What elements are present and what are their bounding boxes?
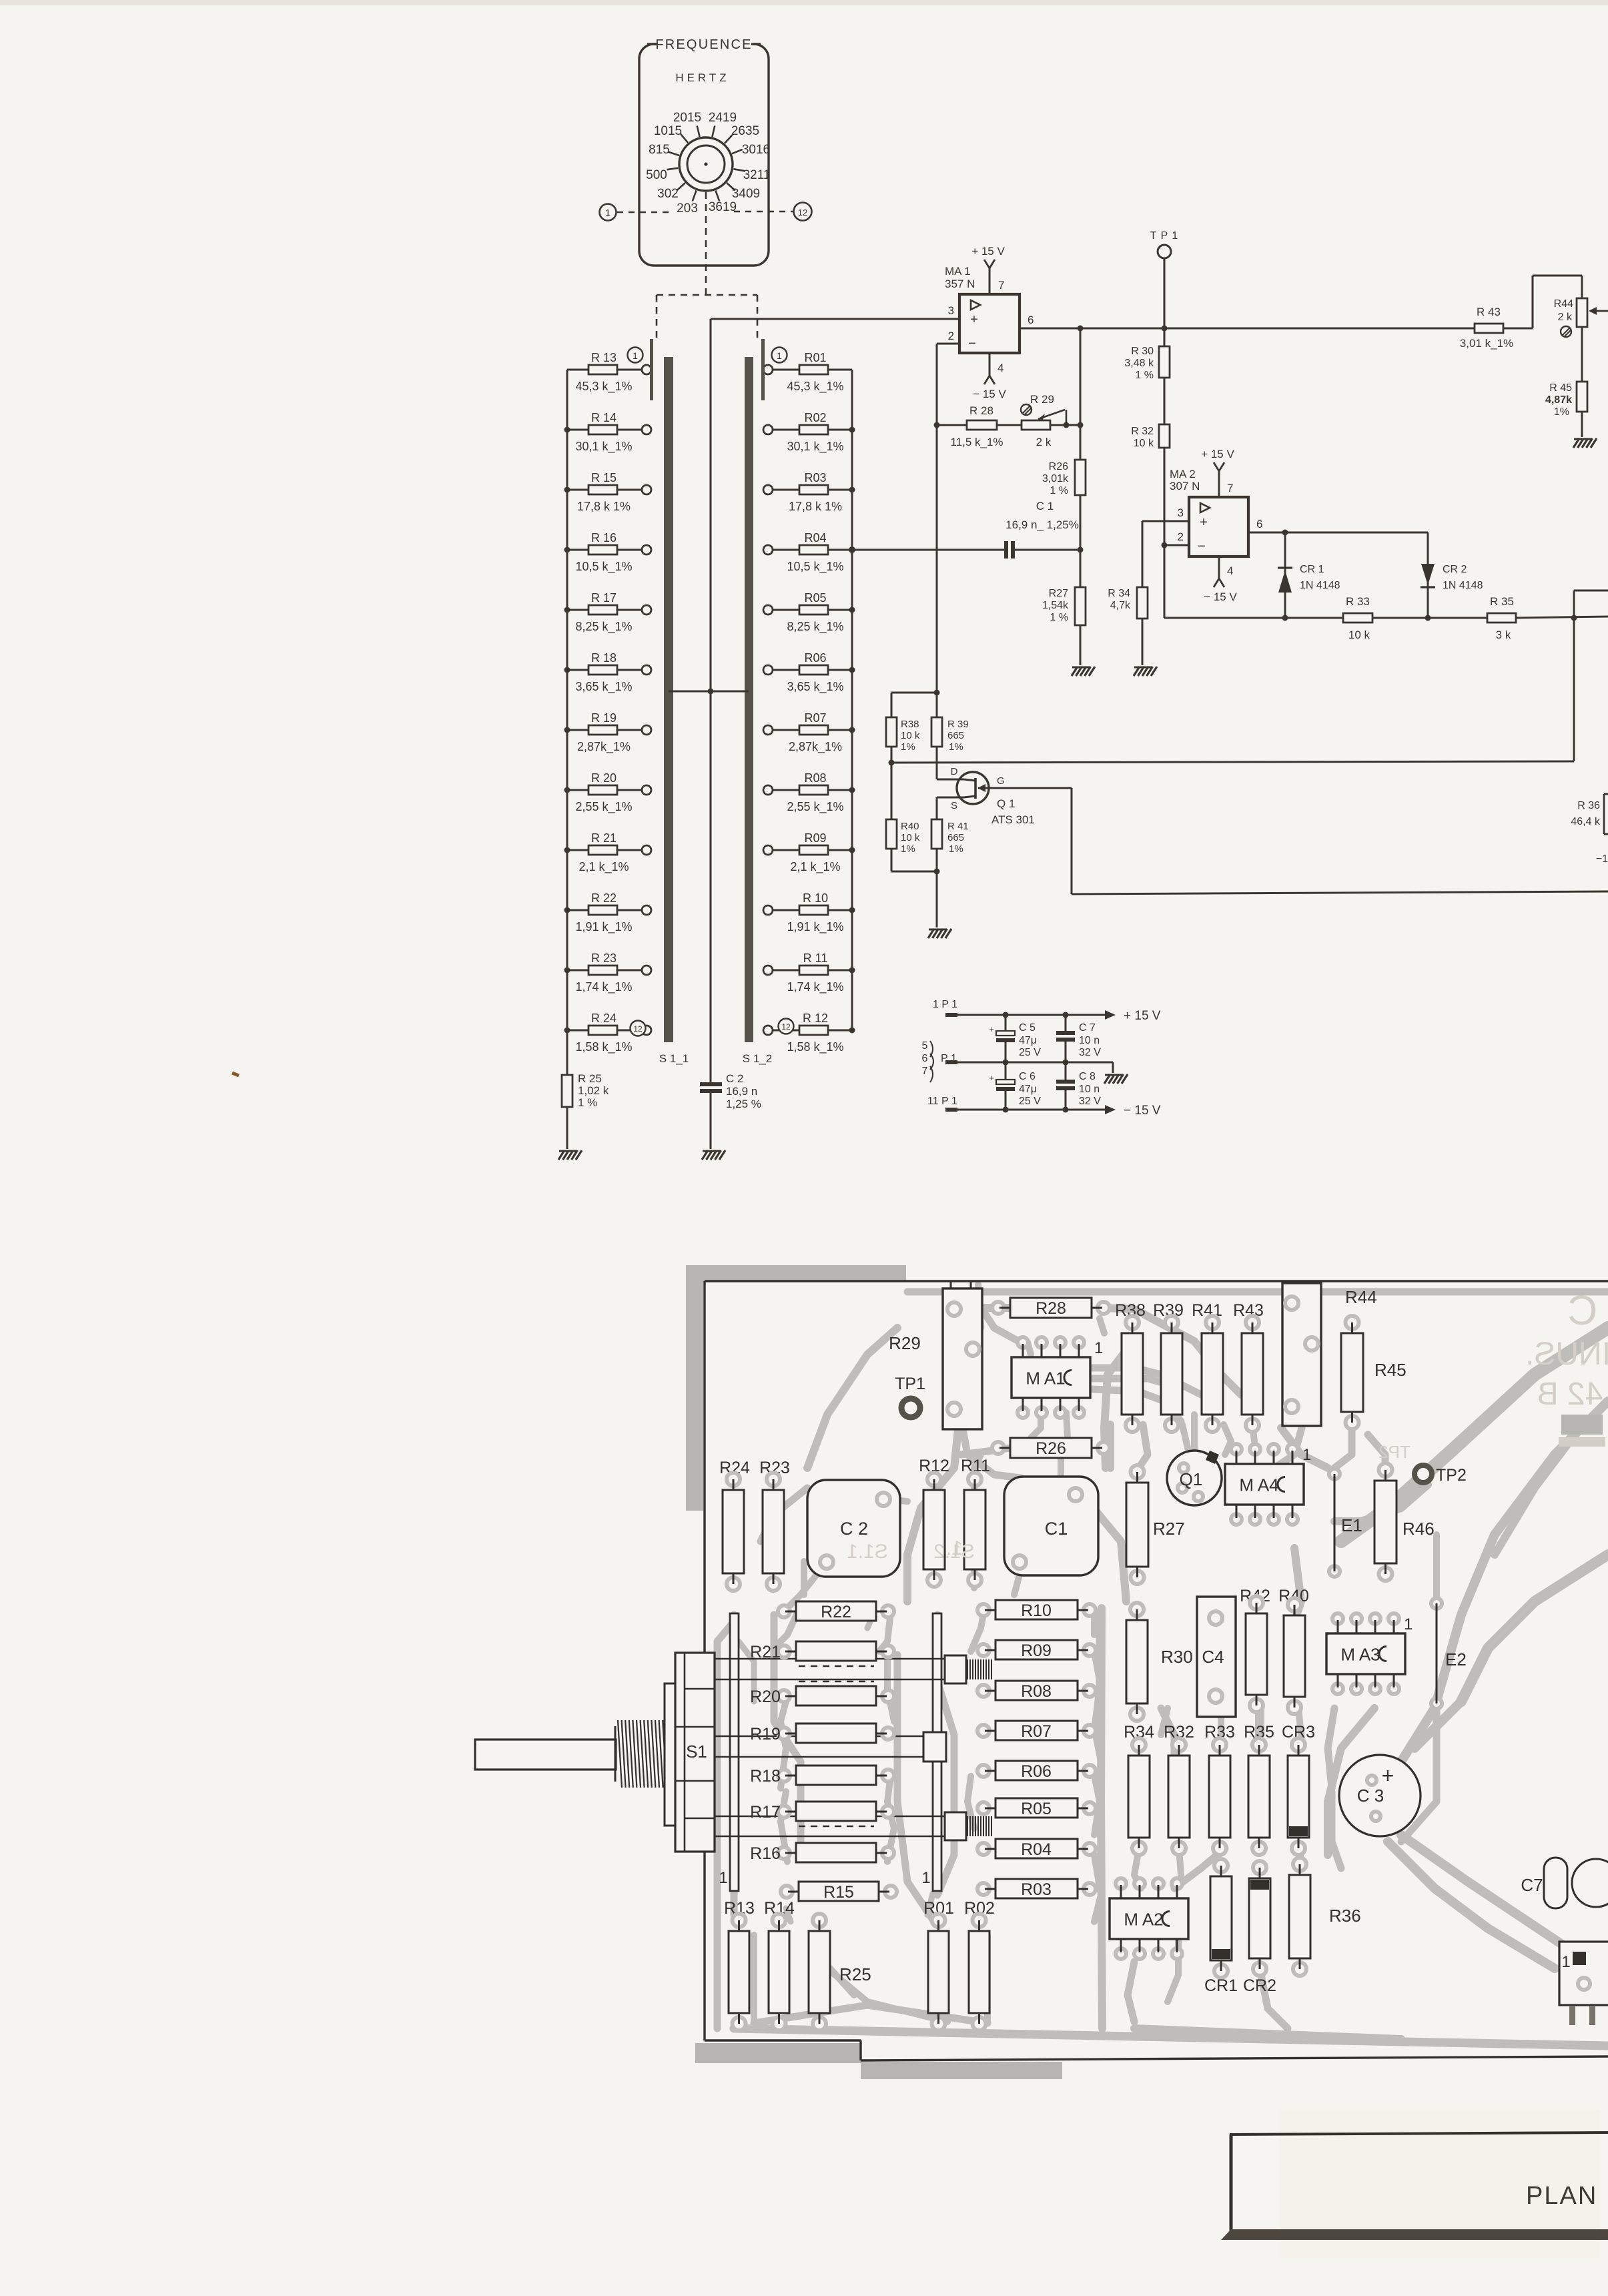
svg-text:R26: R26 [1049,461,1068,472]
dial tick 3409 [727,183,760,201]
pcb resistor R06 [977,1761,1096,1781]
svg-text:C 2: C 2 [726,1072,743,1085]
pcb switch rod B [715,1732,946,1762]
pcb trimmer R44 [1282,1281,1377,1426]
pcb labels R24 R23 [719,1459,790,1477]
svg-text:C 1: C 1 [1036,500,1054,512]
resistor R22 [564,891,652,934]
svg-text:10,5 k_1%: 10,5 k_1% [575,560,632,574]
capacitor C6 47u [989,1062,1041,1110]
pcb resistor R14 [769,1914,789,2030]
svg-text:2635: 2635 [731,124,759,138]
svg-text:S 1_2: S 1_2 [743,1052,772,1065]
MA1 pin 2 wire [937,330,959,693]
svg-text:10 n: 10 n [1079,1035,1100,1046]
svg-text:1: 1 [605,208,611,219]
svg-text:R 22: R 22 [591,891,617,905]
pcb resistor R30 [1126,1603,1193,1721]
pcb switch S1 plate [665,1683,675,1826]
svg-text:3,01 k_1%: 3,01 k_1% [1460,337,1513,350]
label HERTZ [675,71,729,84]
trimmer R29 [1021,393,1084,448]
pcb resistor R15 [781,1882,897,1902]
op-amp MA2 307N [1170,468,1248,556]
connector pins 5 6 7 P1 [922,1040,957,1082]
pcb switch S1 thread [615,1720,667,1788]
wire -15V rail [957,1104,1161,1118]
resistor R10 [763,891,855,934]
svg-text:R09: R09 [804,831,826,845]
pcb resistor R33 [1209,1738,1230,1855]
svg-text:32 V: 32 V [1079,1096,1101,1107]
svg-text:10 k: 10 k [901,832,920,843]
wire source node [891,869,940,928]
svg-text:R 24: R 24 [591,1012,617,1025]
pcb capacitor C1 [1004,1477,1098,1575]
svg-text:R 23: R 23 [591,951,617,965]
pcb resistor R16 [750,1843,894,1863]
svg-text:1,02 k: 1,02 k [578,1084,609,1097]
svg-text:G: G [997,775,1005,787]
svg-text:R 28: R 28 [969,404,993,417]
resistor R20 [564,771,652,814]
svg-text:302: 302 [657,187,679,201]
svg-text:1: 1 [1302,1446,1311,1464]
resistor R45 [1545,327,1587,437]
wire MA2 output to CR2 [1285,532,1428,534]
svg-text:R04: R04 [1021,1840,1052,1859]
transistor Q1 ATS301 [937,766,1035,826]
svg-text:R 39: R 39 [947,719,969,730]
MA2 pin 4 -15V [1204,556,1237,603]
node 1 marker left bank [628,348,643,363]
svg-text:2,87k_1%: 2,87k_1% [789,740,842,754]
svg-text:R 18: R 18 [591,651,617,665]
svg-text:2: 2 [948,330,954,342]
svg-text:3016: 3016 [742,143,770,157]
svg-text:30,1 k_1%: 30,1 k_1% [787,440,843,454]
pcb test point TP1 [895,1375,925,1417]
svg-text:17,8 k 1%: 17,8 k 1% [789,500,842,513]
dashed shaft line from dial [657,192,757,338]
svg-text:3: 3 [1178,506,1184,519]
svg-text:MA 2: MA 2 [1170,468,1196,480]
MA2 pin 2 wire [1162,530,1190,618]
title block PLAN [1221,2110,1608,2258]
svg-text:4,7k: 4,7k [1110,600,1131,611]
svg-text:MA 1: MA 1 [945,265,971,278]
pcb capacitor C7 [1521,1858,1608,1908]
svg-text:46,4 k: 46,4 k [1571,816,1601,827]
resistor R06 [763,651,855,694]
pcb trimmer R29 [889,1281,982,1429]
pcb resistor R13 [729,1914,749,2030]
pcb IC MA4 [1225,1444,1311,1525]
MA2 pin 7 +15V [1201,448,1234,497]
svg-text:2419: 2419 [709,111,737,125]
svg-text:307 N: 307 N [1170,480,1200,492]
svg-text:C 7: C 7 [1079,1022,1096,1034]
svg-text:R 20: R 20 [591,771,617,785]
svg-text:C 6: C 6 [1019,1071,1036,1082]
pcb labels R42 R40 [1240,1587,1309,1605]
MA1 pin 6 output wire [1020,314,1475,332]
svg-text:1,74 k_1%: 1,74 k_1% [575,980,632,994]
ground C2 [702,1150,725,1160]
capacitor C2 [700,691,761,1149]
svg-text:1%: 1% [949,741,963,753]
svg-text:R 14: R 14 [591,411,617,424]
pcb labels R38 R39 R41 R43 [1115,1301,1264,1320]
svg-text:R 32: R 32 [1131,426,1154,437]
pcb resistor R34 [1128,1738,1150,1855]
svg-text:PLAN: PLAN [1526,2182,1597,2210]
svg-text:R28: R28 [1036,1299,1066,1318]
svg-text:45,3 k_1%: 45,3 k_1% [575,380,632,394]
svg-text:47μ: 47μ [1019,1084,1037,1095]
svg-text:R20: R20 [750,1687,781,1706]
svg-text:6: 6 [1256,518,1262,530]
ground R45 [1573,438,1597,448]
svg-text:1%: 1% [901,741,915,753]
svg-text:1: 1 [1561,1953,1570,1971]
pcb resistor R01 [928,1914,949,2030]
svg-text:TP1: TP1 [895,1375,925,1393]
switch wafer S1.2 [743,339,772,1065]
pcb labels R34 R32 R33 R35 CR3 [1124,1723,1315,1742]
svg-text:3211: 3211 [743,168,771,182]
resistor R30 [1124,328,1170,381]
pcb resistor R28 [992,1298,1110,1318]
pcb resistor R35 [1248,1738,1270,1855]
capacitor C8 10n [1056,1062,1101,1110]
pcb labels R12 R11 [919,1457,990,1475]
dial tick 203 [677,191,698,216]
wire 0V rail [957,1060,1113,1074]
resistor R24 [564,1012,652,1054]
pcb switch S1 shaft [475,1740,616,1770]
svg-text:4: 4 [997,362,1003,374]
svg-text:45,3 k_1%: 45,3 k_1% [787,380,843,394]
pcb resistor R11 [964,1473,985,1587]
connector pin 1P1 [933,999,957,1017]
svg-text:3 k: 3 k [1496,629,1511,641]
svg-text:S 1_1: S 1_1 [659,1052,689,1065]
svg-text:−: − [1198,539,1206,554]
MA2 pin 6 wire [1248,518,1288,536]
pcb resistor R25 [809,1914,871,2030]
pcb resistor R26 [992,1438,1110,1458]
wire +15V rail [957,1009,1161,1023]
ground PSU [1104,1074,1128,1084]
op-amp MA1 357N [945,265,1020,353]
svg-text:R19: R19 [750,1725,781,1744]
svg-text:25 V: 25 V [1019,1047,1041,1058]
svg-text:R06: R06 [1021,1762,1052,1781]
svg-text:R21: R21 [750,1643,781,1661]
svg-text:C4: C4 [1202,1647,1224,1667]
MA2 pin 3 wire [1142,506,1189,521]
svg-text:− 15 V: − 15 V [1204,591,1237,603]
pcb diode CR1 [1210,1859,1232,1978]
svg-text:1 %: 1 % [1050,612,1068,623]
svg-text:R44: R44 [1554,298,1573,310]
resistor R28 [934,404,1022,448]
pcb IC MA3 [1326,1613,1413,1694]
wire feedback riser [1571,591,1608,761]
svg-text:R40: R40 [901,821,919,832]
svg-text:R30: R30 [1161,1647,1193,1667]
svg-text:R26: R26 [1036,1439,1066,1458]
svg-text:10,5 k_1%: 10,5 k_1% [787,560,843,574]
pcb resistor R21 [750,1641,894,1661]
pcb copper traces [717,1284,1608,2046]
svg-text:C 5: C 5 [1019,1022,1036,1034]
svg-text:+: + [1200,515,1208,530]
resistor R35 [1487,595,1608,641]
svg-text:11 P 1: 11 P 1 [927,1096,957,1107]
svg-text:R08: R08 [804,771,826,785]
svg-text:R05: R05 [804,591,826,605]
svg-text:C: C [1568,1288,1598,1334]
wire inverting node [891,690,940,696]
pcb resistor R05 [977,1798,1096,1818]
pcb resistor R32 [1168,1738,1190,1855]
pcb resistor R36 [1289,1858,1361,1976]
svg-text:− 15 V: − 15 V [973,388,1006,400]
svg-text:1,58 k_1%: 1,58 k_1% [575,1040,632,1054]
svg-text:R05: R05 [1021,1800,1052,1818]
resistor R01 [763,351,852,394]
svg-text:D: D [951,766,958,777]
svg-text:32 V: 32 V [1079,1047,1101,1058]
resistor R38 [886,693,920,763]
svg-text:R 21: R 21 [591,831,617,845]
svg-text:1,91 k_1%: 1,91 k_1% [787,920,843,934]
svg-text:R07: R07 [1021,1722,1052,1741]
pcb resistor R09 [977,1640,1096,1660]
svg-text:665: 665 [947,832,964,843]
svg-text:C7: C7 [1521,1875,1543,1895]
svg-text:1 %: 1 % [578,1096,597,1109]
node 12 marker left bank [631,1021,646,1036]
svg-text:Q 1: Q 1 [997,797,1015,810]
node 1 marker right bank [772,348,787,363]
switch wafer S1.1 [650,339,689,1065]
svg-text:2,55 k_1%: 2,55 k_1% [787,800,843,814]
resistor R11 [763,951,855,994]
pcb labels CR1 CR2 [1204,1976,1276,1995]
switch front-panel box FREQUENCE [639,36,769,266]
resistor R21 [564,831,652,874]
resistor R13 [567,351,651,394]
svg-text:CR 1: CR 1 [1300,564,1324,575]
svg-text:R09: R09 [1021,1641,1052,1660]
svg-text:2,87k_1%: 2,87k_1% [577,740,631,754]
diode CR2 1N4148 [1421,532,1483,618]
pcb switch rod A [715,1655,991,1683]
svg-text:12: 12 [633,1024,643,1034]
svg-text:500: 500 [646,168,667,182]
svg-text:R 13: R 13 [591,351,617,364]
svg-text:C 8: C 8 [1079,1071,1096,1082]
rotary switch dial S1 [679,137,733,191]
svg-text:R 33: R 33 [1346,595,1370,608]
svg-text:−1: −1 [1596,853,1608,865]
svg-text:815: 815 [649,143,670,157]
pcb resistor R38 [1122,1316,1143,1432]
ground R25 [558,1150,582,1160]
node 12 (switch position 12) [794,203,812,221]
svg-text:S1: S1 [686,1742,707,1762]
svg-text:R 16: R 16 [591,531,617,544]
wire long feedback line [889,760,1575,766]
svg-text:8,25 k_1%: 8,25 k_1% [575,620,632,634]
svg-text:R 34: R 34 [1108,588,1130,599]
svg-text:FREQUENCE: FREQUENCE [655,37,752,52]
resistor R41 [931,797,969,871]
svg-text:R02: R02 [804,411,826,424]
svg-text:TP2: TP2 [1378,1442,1411,1462]
svg-text:3: 3 [948,304,954,317]
svg-text:R08: R08 [1021,1682,1052,1701]
pcb diode CR2 [1249,1861,1270,1976]
resistor R09 [763,831,855,874]
svg-text:42 B: 42 B [1537,1377,1603,1412]
svg-text:Q1: Q1 [1180,1469,1203,1489]
trimmer R44 [1554,298,1608,337]
pcb resistor R41 [1202,1316,1223,1432]
pcb IC MA2 [1110,1878,1188,1959]
svg-text:T P 1: T P 1 [1150,230,1179,242]
ground R34 [1134,667,1157,676]
svg-text:R 19: R 19 [591,711,617,725]
svg-text:1N 4148: 1N 4148 [1300,580,1340,591]
svg-text:4,87k: 4,87k [1545,394,1572,406]
svg-text:R03: R03 [804,471,826,484]
svg-text:R 10: R 10 [803,891,828,905]
wire to MA1 pin3 [711,318,959,320]
svg-text:+ 15 V: + 15 V [1124,1009,1161,1023]
svg-text:1: 1 [633,350,638,361]
pcb resistor R18 [750,1766,894,1786]
svg-text:1: 1 [777,350,782,361]
svg-text:25 V: 25 V [1019,1096,1041,1107]
svg-text:R18: R18 [750,1767,781,1786]
svg-text:3619: 3619 [709,200,737,214]
pcb resistor R10 [977,1600,1096,1620]
svg-text:2,55 k_1%: 2,55 k_1% [575,800,632,814]
pcb resistor R19 [750,1724,894,1744]
svg-text:1 %: 1 % [1050,485,1068,496]
svg-text:3,01k: 3,01k [1042,473,1069,484]
svg-text:1,91 k_1%: 1,91 k_1% [575,920,632,934]
stray orange mark [232,1073,239,1076]
pcb test point TP2 [1415,1465,1467,1485]
svg-text:R36: R36 [1329,1906,1361,1926]
svg-text:+: + [989,1024,994,1034]
resistor R05 [763,591,855,634]
pcb switch wafer bar 1 [719,1613,739,1891]
svg-text:R 17: R 17 [591,591,617,605]
pcb resistor R46 [1374,1463,1435,1581]
resistor R03 [763,471,855,513]
svg-text:+ 15 V: + 15 V [1201,448,1234,460]
svg-text:R07: R07 [804,711,826,725]
svg-text:2 k: 2 k [1558,312,1573,323]
svg-text:+: + [1382,1764,1394,1788]
svg-text:1%: 1% [901,843,915,855]
wire right bus [851,370,853,1030]
pcb resistor R02 [969,1914,989,2030]
pcb resistor R07 [977,1721,1096,1741]
dial tick 3211 [733,168,770,182]
svg-text:3409: 3409 [732,187,760,201]
svg-text:R10: R10 [1021,1601,1052,1620]
svg-text:M A4: M A4 [1239,1475,1278,1495]
svg-text:R38: R38 [901,719,919,730]
svg-text:R27: R27 [1049,588,1068,599]
resistor R23 [564,951,652,994]
pcb jumper E1 [1329,1469,1362,1577]
MA1 pin 4 -15V [973,353,1006,400]
svg-text:12: 12 [798,208,807,218]
svg-text:R 43: R 43 [1477,306,1501,318]
svg-text:1: 1 [921,1869,930,1887]
dashed link wire node1 to dial [617,212,671,214]
resistor R19 [564,711,652,754]
svg-text:1: 1 [1094,1339,1103,1357]
dial tick 2635 [725,124,759,143]
svg-text:R 12: R 12 [803,1012,828,1025]
pcb capacitor C2 [807,1480,900,1577]
svg-text:CR 2: CR 2 [1443,564,1467,575]
resistor R14 [564,411,652,454]
svg-text:2,1 k_1%: 2,1 k_1% [578,860,629,874]
svg-text:+ 15 V: + 15 V [971,245,1005,258]
svg-text:R04: R04 [804,531,826,544]
resistor R32 [1131,378,1170,545]
pcb resistor R17 [750,1802,894,1822]
svg-text:CR2: CR2 [1243,1976,1276,1995]
svg-text:R17: R17 [750,1803,781,1822]
svg-text:30,1 k_1%: 30,1 k_1% [575,440,632,454]
resistor R33 [1343,595,1487,641]
svg-text:R 11: R 11 [803,951,828,965]
svg-text:1%: 1% [1554,406,1569,418]
svg-text:10 k: 10 k [901,730,920,741]
svg-text:665: 665 [947,730,964,741]
ground R27 [1072,667,1095,676]
svg-text:M A2: M A2 [1124,1910,1163,1930]
resistor R12 [763,1012,855,1054]
svg-text:R 45: R 45 [1549,382,1572,394]
pcb resistor R23 [763,1473,784,1591]
svg-text:5: 5 [922,1040,928,1052]
svg-text:CR1: CR1 [1204,1976,1238,1995]
MA1 pin 7 +15V [971,245,1005,294]
svg-text:8,25 k_1%: 8,25 k_1% [787,620,843,634]
connector pin 11P1 [927,1096,957,1112]
wire left bus [566,370,568,1075]
node 12 marker right bank [779,1019,794,1034]
dial tick 815 [649,143,679,157]
svg-text:R06: R06 [804,651,826,665]
svg-text:7: 7 [1227,482,1233,494]
dial tick 2015 [673,111,701,137]
svg-text:3,65 k_1%: 3,65 k_1% [787,680,843,694]
svg-text:S: S [951,800,957,811]
